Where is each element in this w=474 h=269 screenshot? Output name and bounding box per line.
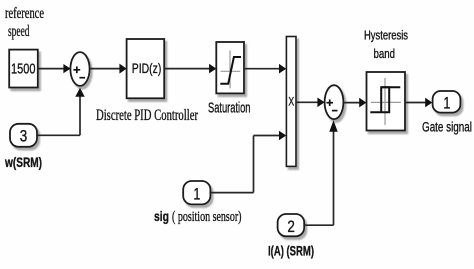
outport 1 Gate signal — [422, 91, 472, 135]
wire: inport 3 to S1 (up into minus) — [37, 88, 85, 136]
svg-text:speed: speed — [8, 23, 30, 40]
svg-text:reference: reference — [5, 5, 44, 22]
wire: inport 1 to product lower input — [210, 131, 286, 193]
wire: 1500 to sum S1 — [38, 64, 71, 73]
svg-text:X: X — [288, 96, 294, 108]
svg-text:PID(z): PID(z) — [132, 61, 162, 76]
wire: S2 to relay — [343, 98, 366, 108]
svg-text:Hysteresis: Hysteresis — [364, 28, 408, 42]
wire: saturation to product — [244, 64, 286, 74]
inport 2 I(A)(SRM) — [268, 214, 314, 258]
svg-text:w(SRM): w(SRM) — [4, 155, 42, 170]
svg-text:Gate signal: Gate signal — [422, 120, 472, 135]
inport 3 w(SRM) — [4, 124, 42, 170]
annotation: reference speed — [5, 5, 44, 40]
inport 1 sig (position sensor) — [154, 181, 242, 225]
svg-text:1: 1 — [193, 184, 200, 203]
svg-text:I(A) (SRM): I(A) (SRM) — [268, 243, 314, 258]
svg-text:band: band — [374, 47, 396, 61]
svg-text:Saturation: Saturation — [208, 100, 251, 117]
constant block C1 value 1500 — [9, 50, 38, 88]
discrete PID controller block U1 — [96, 39, 198, 124]
product block X — [286, 37, 296, 167]
svg-text:1: 1 — [443, 93, 450, 112]
svg-text:2: 2 — [287, 217, 295, 236]
wire: inport 2 to S2 (up into minus) — [304, 120, 338, 225]
svg-text:sig: sig — [154, 209, 169, 224]
svg-text:Discrete PID Controller: Discrete PID Controller — [96, 107, 198, 124]
sum junction S2 — [325, 85, 344, 119]
saturation block — [208, 42, 251, 117]
wire: relay to outport — [405, 98, 432, 108]
svg-text:( position sensor): ( position sensor) — [172, 209, 242, 225]
wire: S1 to PID — [90, 64, 127, 74]
svg-text:1500: 1500 — [11, 61, 36, 78]
sum junction S1 — [70, 52, 89, 86]
wire: product to sum S2 — [296, 98, 325, 108]
svg-text:3: 3 — [20, 127, 28, 146]
relay block (hysteresis band) — [364, 28, 408, 130]
wire: PID to saturation — [164, 64, 216, 74]
